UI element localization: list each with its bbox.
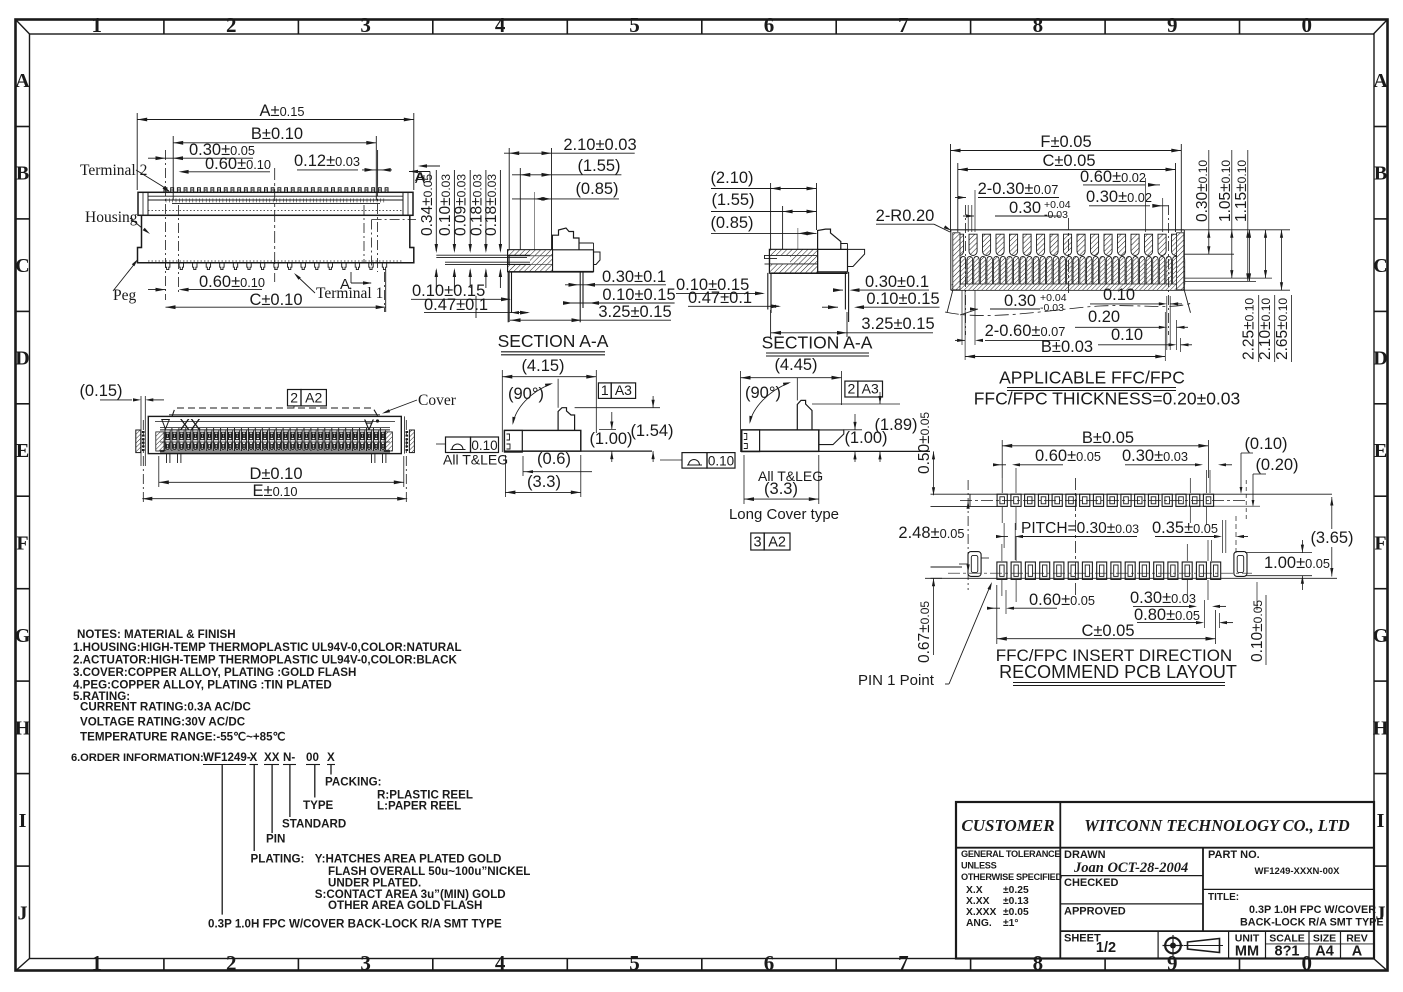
title block PART NO cell bbox=[1208, 849, 1340, 877]
svg-text:PART NO.: PART NO. bbox=[1208, 849, 1260, 861]
svg-text:6: 6 bbox=[764, 951, 775, 975]
svg-text:XX: XX bbox=[264, 751, 280, 764]
svg-text:0.67±0.05: 0.67±0.05 bbox=[916, 601, 933, 663]
svg-text:0.50±0.05: 0.50±0.05 bbox=[916, 412, 933, 474]
svg-text:(0.15): (0.15) bbox=[79, 382, 122, 400]
front view dim C±0.10 bbox=[166, 270, 386, 312]
pcb layout top row outline lines bbox=[931, 494, 1333, 506]
svg-text:4: 4 bbox=[495, 951, 506, 975]
svg-text:5: 5 bbox=[629, 13, 640, 37]
FFC view dim 0.60±0.02 bbox=[1080, 168, 1160, 232]
FFC rotated dim 1.15±0.10 bbox=[1233, 150, 1250, 281]
svg-text:6.ORDER INFORMATION:: 6.ORDER INFORMATION: bbox=[71, 752, 204, 764]
svg-text:L:PAPER REEL: L:PAPER REEL bbox=[377, 800, 461, 813]
pcb layout dim 0.67±0.05 rotated bbox=[916, 578, 942, 663]
FFC comb body outline bbox=[951, 230, 1185, 290]
svg-text:(0.6): (0.6) bbox=[537, 450, 571, 468]
pcb layout top pad centerline ticks bbox=[1002, 468, 1210, 530]
bottom view marking triangle bbox=[162, 420, 170, 430]
notes material and finish text block bbox=[73, 628, 462, 744]
bottom view cover dashed outline bbox=[169, 408, 380, 417]
svg-text:D: D bbox=[15, 348, 29, 370]
front view dim B±0.10 bbox=[173, 125, 376, 200]
svg-text:PIN 1 Point: PIN 1 Point bbox=[858, 672, 935, 689]
svg-text:TITLE:: TITLE: bbox=[1208, 892, 1239, 903]
svg-text:UNLESS: UNLESS bbox=[961, 861, 997, 871]
pcb layout dim 1.00±0.05 bbox=[1245, 540, 1330, 590]
svg-text:2: 2 bbox=[226, 13, 237, 37]
title block third angle projection symbol bbox=[1163, 935, 1224, 956]
side view2 dim (4.45) bbox=[741, 356, 842, 452]
pcb layout dim (3.65) bbox=[1310, 497, 1353, 577]
FFC view dim 0.30±0.02 bbox=[1086, 188, 1168, 232]
svg-text:±1°: ±1° bbox=[1003, 918, 1019, 929]
svg-text:-0.03: -0.03 bbox=[1040, 302, 1064, 314]
bottom view marking rotated A and dot bbox=[364, 416, 379, 433]
svg-text:7: 7 bbox=[898, 951, 909, 975]
side view1 dim (0.6) bbox=[523, 450, 592, 476]
pcb layout dim 0.50±0.05 rotated bbox=[916, 412, 935, 496]
svg-text:(0.20): (0.20) bbox=[1255, 456, 1298, 474]
svg-text:C: C bbox=[1373, 255, 1387, 277]
svg-text:(0.85): (0.85) bbox=[710, 214, 753, 232]
svg-text:A: A bbox=[1373, 70, 1388, 92]
pcb layout dim 2.48±0.05 bbox=[898, 480, 969, 590]
svg-text:C±0.05: C±0.05 bbox=[1081, 622, 1134, 640]
side view1 label All T&LEG bbox=[443, 452, 508, 468]
svg-text:0.60±0.10: 0.60±0.10 bbox=[199, 273, 265, 291]
FFC dim 2-0.60±0.07 bbox=[955, 322, 1065, 342]
side view2 label Long Cover type bbox=[729, 506, 839, 523]
svg-text:Long Cover type: Long Cover type bbox=[729, 506, 839, 523]
title block general tolerance cell bbox=[961, 849, 1062, 929]
svg-text:0.47±0.1: 0.47±0.1 bbox=[424, 296, 488, 314]
svg-text:6: 6 bbox=[764, 13, 775, 37]
flag note box 1|A3 bbox=[598, 382, 635, 398]
svg-text:(4.45): (4.45) bbox=[774, 356, 817, 374]
svg-text:2.65±0.10: 2.65±0.10 bbox=[1274, 298, 1291, 360]
section cut arrow A top right bbox=[409, 170, 430, 187]
svg-text:Y:HATCHES AREA PLATED GOLD: Y:HATCHES AREA PLATED GOLD bbox=[315, 853, 502, 866]
section A-A first view part body bbox=[436, 250, 552, 272]
svg-text:(2.10): (2.10) bbox=[710, 169, 753, 187]
svg-text:1.HOUSING:HIGH-TEMP THERMOPLA: 1.HOUSING:HIGH-TEMP THERMOPLASTIC UL94V-… bbox=[73, 641, 462, 654]
pcb layout right end peg pad bbox=[1234, 552, 1247, 577]
svg-text:00: 00 bbox=[306, 751, 319, 764]
svg-text:Peg: Peg bbox=[113, 287, 137, 304]
svg-text:4: 4 bbox=[495, 13, 506, 37]
svg-text:Joan OCT-28-2004: Joan OCT-28-2004 bbox=[1073, 860, 1188, 876]
svg-text:B: B bbox=[16, 163, 29, 185]
svg-text:OTHERWISE SPECIFIED: OTHERWISE SPECIFIED bbox=[961, 872, 1062, 882]
section A-A second view actuator lever bbox=[818, 229, 865, 272]
svg-text:(1.55): (1.55) bbox=[711, 191, 754, 209]
section A-A second view title bbox=[762, 333, 873, 357]
svg-text:(1.55): (1.55) bbox=[577, 157, 620, 175]
svg-text:APPLICABLE FFC/FPC: APPLICABLE FFC/FPC bbox=[999, 368, 1185, 388]
svg-text:8?1: 8?1 bbox=[1275, 944, 1300, 960]
svg-text:X.XX: X.XX bbox=[966, 896, 990, 907]
pcb layout bottom pad row bbox=[997, 562, 1221, 579]
svg-text:PITCH=0.30±0.03: PITCH=0.30±0.03 bbox=[1021, 520, 1139, 537]
svg-text:NOTES: MATERIAL & FINISH: NOTES: MATERIAL & FINISH bbox=[77, 628, 236, 641]
flag note box 2|A2 bbox=[288, 390, 327, 409]
svg-text:2.ACTUATOR:HIGH-TEMP THERMOPL: 2.ACTUATOR:HIGH-TEMP THERMOPLASTIC UL94V… bbox=[73, 654, 458, 667]
svg-text:WF1249-: WF1249- bbox=[203, 751, 251, 764]
svg-text:2: 2 bbox=[226, 951, 237, 975]
FFC rotated dim 2.65±0.10 bbox=[1274, 230, 1292, 362]
svg-text:E: E bbox=[1374, 440, 1387, 462]
svg-text:PLATING:: PLATING: bbox=[251, 853, 305, 866]
order info branch labels bbox=[208, 776, 530, 931]
pcb layout dim PITCH=0.30±0.03 bbox=[996, 520, 1139, 560]
svg-text:0.18±0.03: 0.18±0.03 bbox=[483, 174, 500, 236]
section A-A first dim 0.30±0.1 right bbox=[565, 268, 666, 287]
svg-text:0.20: 0.20 bbox=[1088, 308, 1120, 326]
svg-text:B: B bbox=[1374, 163, 1387, 185]
title block outer border bbox=[956, 802, 1374, 959]
svg-text:A3: A3 bbox=[862, 381, 879, 397]
side view2 label All T&LEG bbox=[758, 468, 823, 484]
svg-text:X.XXX: X.XXX bbox=[966, 907, 996, 918]
section A-A second view dims 2.10/1.55/0.85 bbox=[710, 169, 816, 250]
svg-text:A2: A2 bbox=[768, 535, 786, 551]
label Housing with leader bbox=[85, 209, 150, 234]
bottom view pin stubs below bbox=[167, 454, 386, 463]
front view housing top band bbox=[138, 192, 413, 215]
svg-text:STANDARD: STANDARD bbox=[282, 818, 346, 831]
svg-text:0: 0 bbox=[1302, 951, 1313, 975]
svg-text:2: 2 bbox=[290, 390, 298, 406]
svg-text:0.10: 0.10 bbox=[1111, 326, 1143, 344]
svg-text:0.60±0.02: 0.60±0.02 bbox=[1080, 168, 1146, 186]
svg-text:3: 3 bbox=[360, 951, 371, 975]
front view centerlines bbox=[166, 150, 385, 312]
pcb layout dim (0.10) with leader bbox=[1240, 435, 1288, 520]
pcb layout dim (0.20) with leader bbox=[1184, 456, 1298, 507]
FFC view titles bbox=[974, 368, 1241, 409]
svg-text:WF1249-XXXN-00X: WF1249-XXXN-00X bbox=[1254, 866, 1340, 877]
border zone numbers bottom bbox=[91, 951, 1312, 975]
svg-text:PIN: PIN bbox=[266, 833, 285, 846]
section A-A first view solder legs bbox=[508, 272, 594, 323]
svg-text:X: X bbox=[327, 751, 335, 764]
svg-text:0.30±0.03: 0.30±0.03 bbox=[1130, 589, 1196, 607]
FFC dim B±0.03 bbox=[965, 312, 1165, 361]
svg-text:I: I bbox=[19, 810, 27, 832]
svg-text:D: D bbox=[1373, 348, 1387, 370]
section A-A second dim 0.30±0.1 right bbox=[833, 273, 929, 292]
svg-text:0.30±0.02: 0.30±0.02 bbox=[1086, 188, 1152, 206]
svg-text:2: 2 bbox=[848, 381, 856, 397]
svg-text:ANG.: ANG. bbox=[966, 918, 992, 929]
svg-text:(4.15): (4.15) bbox=[521, 357, 564, 375]
svg-text:0.80±0.05: 0.80±0.05 bbox=[1134, 606, 1200, 624]
svg-text:0.30: 0.30 bbox=[1004, 292, 1036, 310]
side view2 dim (3.3) bbox=[744, 455, 819, 504]
svg-text:B±0.03: B±0.03 bbox=[1041, 338, 1093, 356]
svg-text:1/2: 1/2 bbox=[1096, 940, 1116, 956]
svg-text:0.10: 0.10 bbox=[708, 453, 734, 468]
svg-text:0.35±0.05: 0.35±0.05 bbox=[1152, 519, 1218, 537]
svg-text:±0.13: ±0.13 bbox=[1003, 896, 1029, 907]
section A-A second view solder legs bbox=[768, 272, 849, 322]
title block DRAWN cell bbox=[1064, 849, 1188, 876]
svg-text:(3.65): (3.65) bbox=[1310, 529, 1353, 547]
svg-text:F: F bbox=[1374, 533, 1386, 555]
side view2 dim (1.00) bbox=[843, 414, 888, 462]
pcb layout dim 0.35±0.05 bbox=[1152, 516, 1248, 553]
pcb layout top pad row bbox=[997, 494, 1214, 506]
pcb layout dim 0.60±0.05 top bbox=[993, 447, 1101, 466]
svg-text:1: 1 bbox=[91, 951, 102, 975]
svg-text:H: H bbox=[15, 717, 31, 739]
FFC comb side edge bars bbox=[953, 233, 1184, 290]
svg-text:2.25±0.10: 2.25±0.10 bbox=[1241, 298, 1258, 360]
FFC comb centerlines bbox=[966, 205, 1169, 335]
section A-A second dim 3.25±0.15 right bbox=[771, 310, 935, 337]
section A-A second view part body bbox=[765, 249, 818, 273]
svg-text:J: J bbox=[18, 902, 28, 924]
svg-text:A: A bbox=[340, 276, 350, 293]
FFC dim 0.10 top right bbox=[1090, 286, 1182, 350]
section A-A second dim 0.10±0.15 left bbox=[676, 276, 765, 295]
svg-text:SECTION A-A: SECTION A-A bbox=[762, 333, 873, 353]
svg-text:PACKING:: PACKING: bbox=[325, 776, 381, 789]
front view dim A±0.15 bbox=[137, 102, 414, 190]
order information line bbox=[71, 751, 335, 765]
label Peg with leader bbox=[113, 259, 138, 304]
svg-text:SECTION A-A: SECTION A-A bbox=[498, 331, 609, 351]
svg-text:Housing: Housing bbox=[85, 209, 138, 226]
front view terminal teeth top row bbox=[164, 188, 388, 203]
svg-text:VOLTAGE RATING:30V AC/DC: VOLTAGE RATING:30V AC/DC bbox=[80, 716, 246, 729]
label Terminal 2 with leader bbox=[80, 162, 170, 192]
svg-text:MM: MM bbox=[1235, 944, 1259, 960]
svg-text:E±0.10: E±0.10 bbox=[253, 482, 298, 500]
svg-text:3.COVER:COPPER ALLOY, PL: 3.COVER:COPPER ALLOY, PLATING :GOLD FLAS… bbox=[73, 666, 356, 679]
section A-A first dim 0.47±0.1 left bbox=[424, 296, 530, 318]
front view housing body bbox=[138, 215, 417, 268]
svg-text:0.30±0.1: 0.30±0.1 bbox=[865, 273, 929, 291]
title block CUSTOMER cell bbox=[961, 816, 1054, 835]
svg-text:APPROVED: APPROVED bbox=[1064, 906, 1126, 918]
FFC view dim 0.30 +0.04 -0.03 top bbox=[963, 190, 1071, 232]
section A-A second dim 0.47±0.1 left bbox=[688, 289, 781, 308]
title block company name bbox=[1084, 816, 1349, 835]
svg-text:F: F bbox=[16, 533, 28, 555]
svg-text:I: I bbox=[1377, 810, 1385, 832]
bottom view left peg block bbox=[136, 430, 143, 453]
svg-text:D±0.10: D±0.10 bbox=[249, 465, 302, 483]
title block CHECKED cell bbox=[1064, 877, 1118, 889]
bottom view dim D±0.10 bbox=[159, 456, 404, 487]
bottom view dim (0.15) bbox=[79, 382, 164, 466]
bottom view contact teeth strip bbox=[156, 428, 393, 451]
svg-text:9: 9 bbox=[1167, 13, 1178, 37]
svg-text:3.25±0.15: 3.25±0.15 bbox=[598, 303, 671, 321]
svg-text:2.10±0.03: 2.10±0.03 bbox=[563, 136, 636, 154]
pcb layout dim 0.10±0.05 rotated bbox=[1249, 582, 1266, 665]
svg-text:(0.85): (0.85) bbox=[575, 180, 618, 198]
svg-text:A: A bbox=[15, 70, 30, 92]
svg-text:B±0.10: B±0.10 bbox=[251, 125, 303, 143]
section A-A first dim 0.10±0.15 left bbox=[411, 282, 511, 301]
svg-text:3.25±0.15: 3.25±0.15 bbox=[861, 315, 934, 333]
svg-text:Cover: Cover bbox=[418, 392, 457, 409]
bottom view marking XX bbox=[179, 417, 201, 434]
svg-text:0.10±0.05: 0.10±0.05 bbox=[1249, 600, 1266, 662]
section cut label A left bbox=[415, 164, 440, 185]
front view terminal teeth bottom row bbox=[166, 263, 387, 270]
FFC lower flare and break line bbox=[945, 290, 1192, 360]
svg-text:A: A bbox=[1352, 944, 1363, 960]
svg-text:XX: XX bbox=[179, 417, 201, 434]
side view1 dim (4.15) bbox=[502, 357, 596, 452]
FFC right extension lines bbox=[1184, 230, 1290, 290]
side view2 angle dim (90°) bbox=[745, 382, 791, 424]
label PIN 1 Point with leader bbox=[858, 582, 992, 689]
svg-text:0.10±0.15: 0.10±0.15 bbox=[602, 286, 675, 304]
FFC rotated dim 1.05±0.10 bbox=[1217, 150, 1234, 278]
svg-text:1.00±0.05: 1.00±0.05 bbox=[1264, 554, 1330, 572]
svg-text:0: 0 bbox=[1302, 13, 1313, 37]
svg-text:CUSTOMER: CUSTOMER bbox=[961, 816, 1054, 835]
front view dim 0.60±0.10 bottom bbox=[148, 273, 265, 292]
svg-text:OTHER AREA GOLD FLASH: OTHER AREA GOLD FLASH bbox=[328, 899, 482, 912]
svg-text:H: H bbox=[1373, 717, 1389, 739]
svg-text:A3: A3 bbox=[615, 382, 632, 398]
svg-text:A: A bbox=[364, 416, 374, 433]
svg-text:9: 9 bbox=[1167, 951, 1178, 975]
svg-text:F±0.05: F±0.05 bbox=[1040, 133, 1091, 151]
top border zone ticks bbox=[164, 20, 1240, 971]
FFC rotated dim 2.25±0.10 bbox=[1241, 230, 1259, 362]
svg-text:0.30±0.03: 0.30±0.03 bbox=[1122, 447, 1188, 465]
svg-text:(1.00): (1.00) bbox=[844, 429, 887, 447]
svg-text:0.3P 1.0H FPC W/COVER: 0.3P 1.0H FPC W/COVER bbox=[1249, 904, 1376, 916]
bottom view right peg block bbox=[405, 416, 415, 453]
svg-text:G: G bbox=[1373, 625, 1389, 647]
svg-text:8: 8 bbox=[1033, 951, 1044, 975]
label Cover with leader bbox=[382, 392, 457, 414]
title block grid lines bbox=[956, 802, 1374, 959]
section A-A first view title bbox=[498, 331, 609, 355]
svg-text:2-R0.20: 2-R0.20 bbox=[876, 207, 935, 225]
svg-text:0.30±0.1: 0.30±0.1 bbox=[602, 268, 666, 286]
svg-text:3: 3 bbox=[753, 535, 761, 551]
svg-text:(3.3): (3.3) bbox=[527, 473, 561, 491]
bottom view dim E±0.10 bbox=[142, 420, 407, 503]
svg-text:(0.10): (0.10) bbox=[1244, 435, 1287, 453]
svg-text:±0.25: ±0.25 bbox=[1003, 885, 1029, 896]
FFC rotated dim 0.30±0.10 bbox=[1194, 150, 1211, 254]
title block TITLE cell bbox=[1208, 892, 1384, 929]
FFC comb contact fingers hatched bbox=[952, 256, 1185, 290]
section cut arrow A bottom bbox=[340, 272, 372, 293]
FFC dim 0.20 bbox=[1075, 308, 1188, 350]
border zone letters right bbox=[1373, 70, 1389, 924]
front view dim 0.30±0.05 bbox=[148, 141, 255, 160]
svg-text:3: 3 bbox=[360, 13, 371, 37]
svg-text:0.47±0.1: 0.47±0.1 bbox=[688, 289, 752, 307]
side view1 dim (3.3) bbox=[505, 455, 580, 497]
side view2 dim (1.89) bbox=[812, 392, 918, 462]
label Terminal 1 with leader bbox=[294, 273, 383, 302]
FFC view dim C±0.05 bbox=[958, 152, 1176, 232]
svg-text:(3.3): (3.3) bbox=[764, 480, 798, 498]
svg-text:C: C bbox=[15, 255, 29, 277]
svg-text:-0.03: -0.03 bbox=[1044, 209, 1068, 221]
pcb layout dim 0.80±0.05 bbox=[1134, 600, 1233, 628]
title block SHEET cell bbox=[1064, 933, 1116, 957]
svg-text:FFC/FPC THICKNESS=0.20±0.03: FFC/FPC THICKNESS=0.20±0.03 bbox=[974, 389, 1241, 409]
pcb layout dim 0.30±0.03 top bbox=[1122, 447, 1232, 466]
svg-text:G: G bbox=[15, 625, 31, 647]
svg-text:TEMPERATURE RANGE:-55℃~+85℃: TEMPERATURE RANGE:-55℃~+85℃ bbox=[80, 731, 286, 744]
svg-text:(1.54): (1.54) bbox=[630, 422, 673, 440]
bottom view body bbox=[148, 416, 401, 453]
border zone letters left bbox=[15, 70, 31, 924]
order info tree lines bbox=[222, 765, 331, 915]
svg-text:0.10±0.15: 0.10±0.15 bbox=[866, 290, 939, 308]
svg-text:GENERAL TOLERANCE: GENERAL TOLERANCE bbox=[961, 849, 1060, 859]
pcb layout dim C±0.05 bbox=[997, 585, 1216, 644]
svg-text:X.X: X.X bbox=[966, 885, 983, 896]
svg-text:0.10±0.03: 0.10±0.03 bbox=[437, 174, 454, 236]
svg-text:(1.00): (1.00) bbox=[589, 430, 632, 448]
FFC view dim 2-0.30±0.07 bbox=[955, 180, 1059, 199]
pcb layout left end peg pad bbox=[959, 552, 989, 577]
front view dim 0.60±0.10 bbox=[179, 155, 271, 174]
profile tolerance flag box view2 bbox=[660, 453, 735, 469]
title block APPROVED cell bbox=[1064, 906, 1126, 918]
side view1 part outline bbox=[504, 379, 660, 452]
section A-A first view dims 2.10/1.55/0.85 bbox=[504, 136, 637, 322]
flag note box 3|A2 bbox=[751, 533, 790, 551]
side border zone ticks bbox=[16, 127, 1388, 867]
border zone numbers top bbox=[91, 13, 1312, 37]
FFC rotated dim 2.10±0.10 bbox=[1257, 230, 1275, 362]
svg-text:0.60±0.05: 0.60±0.05 bbox=[1035, 447, 1101, 465]
svg-text:All T&LEG: All T&LEG bbox=[443, 452, 508, 468]
svg-text:8: 8 bbox=[1033, 13, 1044, 37]
side view1 dim (1.00) bbox=[589, 412, 632, 462]
side view2 part outline bbox=[742, 378, 930, 452]
section A-A first view actuator lever bbox=[552, 228, 600, 272]
pcb layout bottom row outline lines bbox=[931, 567, 1338, 578]
side view1 angle dim (90°) bbox=[508, 383, 553, 425]
svg-text:±0.05: ±0.05 bbox=[1003, 907, 1029, 918]
svg-text:0.09±0.03: 0.09±0.03 bbox=[453, 174, 470, 236]
pcb layout dim 0.60±0.05 bottom bbox=[987, 590, 1095, 614]
svg-text:(90°): (90°) bbox=[745, 384, 781, 402]
svg-text:WITCONN TECHNOLOGY CO., LTD: WITCONN TECHNOLOGY CO., LTD bbox=[1084, 816, 1349, 835]
svg-text:B±0.05: B±0.05 bbox=[1082, 429, 1134, 447]
svg-text:A2: A2 bbox=[305, 390, 322, 406]
section A-A second dim 0.10±0.15 right bbox=[822, 290, 940, 309]
side view1 dim (1.54) bbox=[630, 396, 673, 462]
pcb layout center vertical centerline bbox=[1075, 478, 1077, 598]
pcb layout dim B±0.05 bbox=[1002, 429, 1208, 478]
svg-text:A±0.15: A±0.15 bbox=[260, 102, 305, 120]
section A-A first dim 3.25±0.15 right bbox=[510, 303, 672, 322]
svg-text:TYPE: TYPE bbox=[303, 799, 334, 812]
title block UNIT SCALE SIZE REV cells bbox=[1235, 933, 1368, 960]
svg-text:0.12±0.03: 0.12±0.03 bbox=[294, 152, 360, 170]
svg-text:CHECKED: CHECKED bbox=[1064, 877, 1118, 889]
svg-text:0.3P 1.0H FPC W/COVER BACK: 0.3P 1.0H FPC W/COVER BACK-LOCK R/A SMT … bbox=[208, 918, 502, 931]
